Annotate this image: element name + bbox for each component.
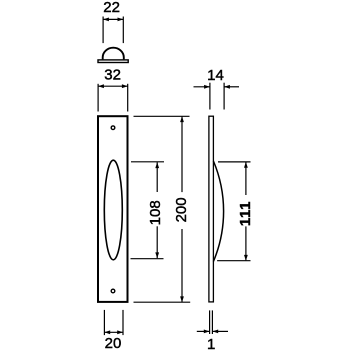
- dimension 14 label: [207, 67, 224, 84]
- screw hole bottom: [111, 289, 115, 293]
- top view base plate bar: [98, 60, 128, 63]
- dimension 111 line and arrows: [244, 162, 248, 261]
- dimension 22 label: [103, 0, 120, 16]
- svg-text:14: 14: [207, 67, 224, 84]
- dimension 200 line and arrows: [180, 116, 184, 302]
- top view dome: [103, 48, 124, 60]
- dimension 32 lines and arrows: [98, 84, 128, 112]
- dimension 1 line and arrows: [197, 330, 228, 334]
- side view profile bar: [209, 116, 214, 302]
- dimension 111 extension lines: [217, 162, 250, 261]
- dimension 1 extension lines: [210, 310, 213, 334]
- dimension 20 line and arrows: [104, 330, 123, 334]
- dimension 108 extension lines: [131, 162, 165, 259]
- svg-text:20: 20: [105, 335, 122, 350]
- svg-text:22: 22: [103, 0, 120, 16]
- dimension 108 label (rotated): [147, 200, 164, 225]
- dimension 1 label: [207, 336, 215, 350]
- dimension 14 lines and arrows: [194, 83, 240, 110]
- svg-text:1: 1: [207, 336, 215, 350]
- oval recess: [104, 160, 122, 260]
- svg-text:111: 111: [237, 201, 254, 226]
- front view plate: [98, 116, 128, 302]
- dimension 111 label (rotated): [237, 201, 254, 226]
- side view bulge curve: [213, 161, 223, 262]
- dimension 32 label: [104, 67, 121, 84]
- dimension 20 label: [105, 335, 122, 350]
- svg-text:108: 108: [147, 200, 164, 225]
- dimension 200 label (rotated): [173, 197, 190, 222]
- svg-text:32: 32: [104, 67, 121, 84]
- dimension 20 extension lines: [104, 310, 123, 335]
- screw hole top: [111, 126, 115, 130]
- svg-text:200: 200: [173, 197, 190, 222]
- dimension 108 line and arrows: [155, 162, 159, 258]
- dimension 22 lines and arrows: [103, 17, 123, 44]
- dimension 200 extension lines: [134, 116, 191, 302]
